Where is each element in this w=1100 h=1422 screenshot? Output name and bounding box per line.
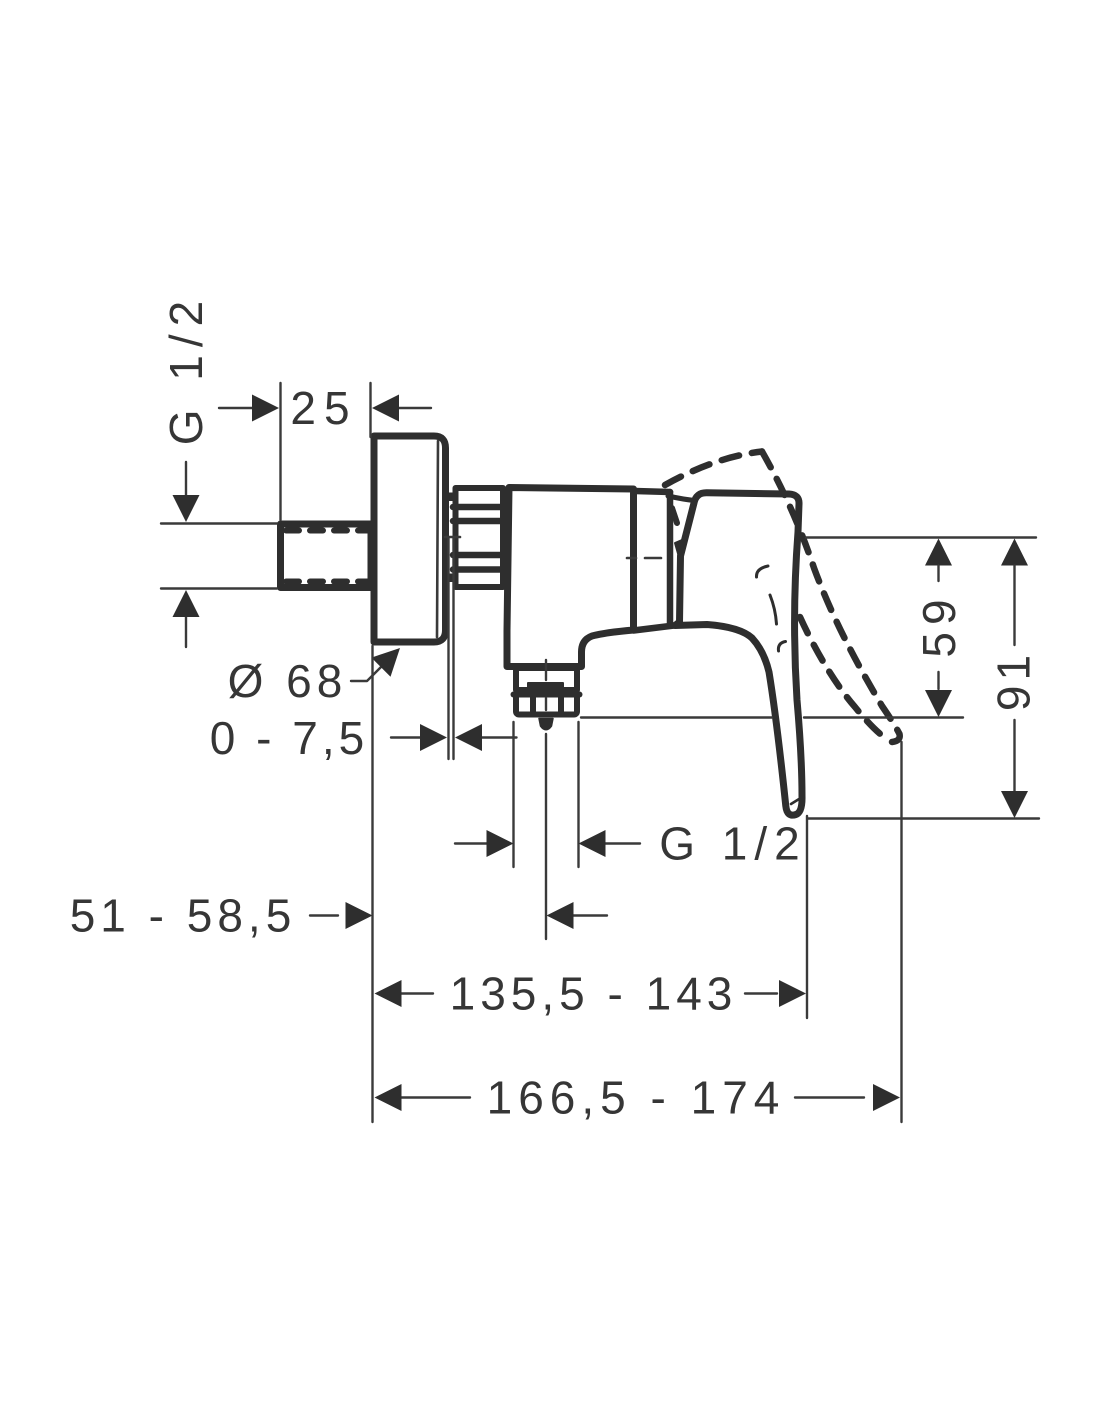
handle front notch wedge	[675, 540, 682, 557]
handle detail arc c	[778, 642, 785, 652]
hex facet right	[558, 697, 564, 712]
escutcheon wall plate	[374, 436, 446, 642]
svg-text:51 - 58,5: 51 - 58,5	[70, 890, 297, 942]
handle lever	[675, 493, 802, 815]
dimension 51-58,5 right arrow	[572, 914, 607, 916]
nipple thread dashes top	[286, 528, 368, 534]
svg-text:0 - 7,5: 0 - 7,5	[210, 712, 368, 764]
handle detail arc b	[770, 595, 777, 624]
dimension 25 extension line left	[279, 383, 281, 520]
dimension 91 upper arrow	[1001, 539, 1028, 566]
handle pivot dash	[672, 508, 677, 523]
outlet extension line right	[577, 722, 579, 867]
svg-text:25: 25	[290, 382, 357, 434]
dimension 166,5-174 left arrow	[401, 1096, 470, 1098]
ghost handle inner edge dashed	[800, 617, 884, 737]
svg-text:135,5 - 143: 135,5 - 143	[450, 968, 738, 1020]
dimension 0-7,5 right arrow	[481, 736, 517, 738]
dimension 25 right arrow	[398, 407, 431, 409]
dimension 135,5-143 right arrow	[745, 992, 777, 994]
outlet connector box	[516, 668, 577, 690]
right extension line top	[806, 536, 1036, 538]
outlet tip	[539, 719, 553, 730]
ghost handle outer edge dashed	[762, 452, 900, 743]
dimension 51-58,5 left arrow	[310, 914, 338, 916]
svg-text:G 1/2: G 1/2	[160, 293, 212, 446]
valve body with outlet step	[507, 488, 634, 667]
dimension 166,5-174 right arrow	[795, 1096, 864, 1098]
dimension 59 lower arrow	[937, 672, 939, 689]
right extension line bottom	[808, 817, 1039, 819]
ghost handle top edge dashed	[665, 452, 762, 486]
left main extension line	[371, 646, 373, 1122]
handle base dome arc	[668, 496, 695, 501]
outlet extension line left	[512, 722, 514, 867]
nut back flange tab bottom	[446, 574, 456, 583]
dimension 0-7,5 left arrow	[391, 736, 421, 738]
cartridge ring bottom edge	[634, 626, 675, 631]
dimension 25 extension line right	[369, 383, 371, 437]
hex facet left	[530, 697, 536, 712]
nut knurl band 1	[453, 504, 505, 511]
ghost tip extension line	[900, 742, 902, 1122]
outlet hex cap	[528, 683, 563, 692]
dimension 91 lower arrow	[1013, 720, 1015, 792]
svg-text:91: 91	[988, 650, 1040, 711]
G 1/2 left extension top	[161, 522, 277, 524]
svg-text:G 1/2: G 1/2	[659, 818, 807, 870]
svg-text:166,5 - 174: 166,5 - 174	[487, 1072, 786, 1124]
dimension 135,5-143 left arrow	[401, 992, 433, 994]
svg-text:Ø 68: Ø 68	[228, 655, 348, 707]
dimension 59 upper arrow	[925, 539, 952, 566]
dimension G 1/2 outlet right arrow	[605, 842, 640, 844]
cartridge ring right edge	[667, 492, 674, 623]
dimension 0-7,5 extension lines	[447, 537, 449, 759]
nipple thread dashes bottom	[286, 579, 368, 585]
nut knurl band 3	[453, 552, 505, 559]
cartridge ring top edge	[634, 491, 671, 492]
centerline tick at escutcheon	[445, 536, 460, 539]
G 1/2 left lower arrow	[185, 614, 187, 647]
outlet collar line	[514, 692, 580, 698]
dimension 25 left arrow	[219, 407, 254, 409]
wall pipe nipple G1/2	[281, 524, 372, 588]
grip tip parting line	[791, 798, 802, 805]
nut knurl band 4	[453, 566, 505, 573]
union nut	[456, 488, 504, 587]
handle tip extension line	[806, 816, 808, 1018]
G 1/2 left upper arrow	[185, 462, 187, 498]
dimension G 1/2 outlet left arrow	[455, 842, 489, 844]
outlet hex nut	[516, 695, 577, 715]
centerline ticks at cartridge	[627, 557, 636, 560]
G 1/2 left extension bottom	[161, 587, 277, 589]
handle detail arc a	[756, 566, 768, 577]
svg-text:59: 59	[913, 592, 965, 657]
nut knurl band 2	[453, 518, 505, 525]
diameter 68 leader	[351, 665, 383, 681]
nut back flange tab top	[446, 493, 456, 502]
right extension line middle	[581, 716, 772, 718]
outlet axis centerline	[545, 660, 547, 680]
escutcheon face line	[437, 441, 438, 637]
